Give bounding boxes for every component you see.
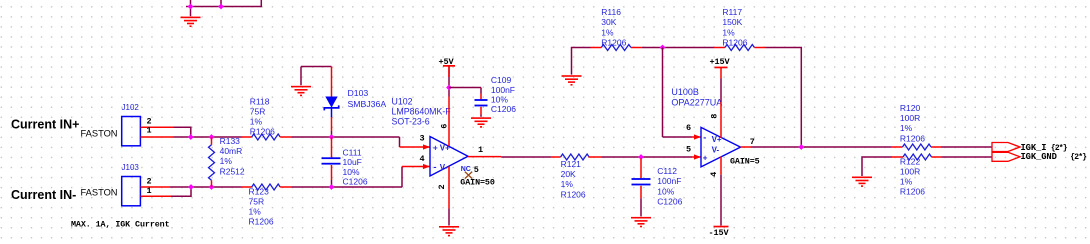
wire (output net)	[751, 146, 892, 148]
svg-text:SOT-23-6: SOT-23-6	[392, 117, 430, 127]
wire (top-left vertical 1)	[190, 0, 192, 7]
svg-text:1: 1	[147, 126, 152, 136]
wire (D103 to net IN+)	[331, 131, 333, 137]
junction (top-left B)	[218, 4, 224, 10]
lead (C111 top)	[331, 137, 333, 157]
svg-text:R1206: R1206	[561, 189, 586, 199]
wire (top-left vertical 3)	[260, 0, 262, 7]
svg-text:C1206: C1206	[343, 176, 368, 186]
lead (R117 left)	[714, 47, 725, 49]
wire (C109 top)	[480, 88, 482, 94]
svg-text:D103: D103	[348, 88, 369, 98]
svg-text:5: 5	[686, 144, 691, 154]
resistor R120	[903, 144, 932, 150]
svg-text:GAIN=50: GAIN=50	[460, 177, 495, 187]
label R118 75R 1% R1206	[250, 96, 275, 136]
svg-text:10%: 10%	[491, 94, 508, 104]
svg-text:J102: J102	[122, 103, 140, 112]
lead (R121 right)	[588, 156, 601, 158]
lead (R116 left)	[591, 47, 602, 49]
wire (J102 pin2 to node)	[174, 127, 191, 137]
junction (net IN+ 1)	[188, 134, 194, 140]
svg-text:10%: 10%	[657, 186, 674, 196]
arrow (pin 5)	[694, 154, 701, 159]
svg-text:-15V: -15V	[709, 228, 730, 238]
connector J103	[122, 177, 141, 206]
svg-text:R1206: R1206	[900, 133, 925, 143]
svg-text:+: +	[703, 154, 708, 163]
svg-text:40mR: 40mR	[220, 146, 243, 156]
pin 3 of U102	[400, 146, 431, 148]
wire (IGK_GND net)	[942, 156, 993, 158]
label R116 30K 1% R1206	[601, 7, 626, 47]
svg-text:R120: R120	[900, 103, 921, 113]
svg-text:U102: U102	[392, 97, 413, 107]
svg-text:V-: V-	[440, 163, 448, 172]
svg-text:C111: C111	[343, 148, 362, 158]
svg-text:1%: 1%	[250, 117, 263, 127]
svg-text:R118: R118	[250, 96, 270, 106]
label R133 40mR 1% R2512	[220, 136, 245, 176]
svg-text:-: -	[434, 162, 437, 172]
pin 7 of U100B	[741, 146, 752, 148]
svg-text:C1206: C1206	[491, 104, 516, 114]
svg-text:1%: 1%	[220, 156, 233, 166]
svg-text:30K: 30K	[601, 17, 616, 27]
label R120 100R 1% R1206	[900, 103, 925, 143]
ground (IGK_GND)	[852, 177, 872, 187]
wire (R116 to ground)	[572, 48, 591, 75]
svg-text:GAIN=5: GAIN=5	[730, 157, 760, 167]
svg-text:MAX. 1A, IGK Current: MAX. 1A, IGK Current	[71, 219, 170, 229]
svg-text:U100B: U100B	[671, 87, 699, 97]
svg-text:+5V: +5V	[439, 57, 455, 67]
svg-text:4: 4	[709, 172, 719, 177]
label C109 100nF 10% C1206	[491, 75, 516, 114]
junction (C112 node)	[638, 154, 644, 160]
lead (R123 left)	[242, 186, 252, 188]
svg-text:2: 2	[437, 184, 447, 189]
svg-text:100R: 100R	[900, 113, 920, 123]
lead (R118 right)	[280, 136, 291, 138]
svg-text:1%: 1%	[900, 177, 913, 187]
pin 4 of U102	[402, 166, 430, 168]
no-connect cross (U102 pin 5)	[465, 172, 472, 179]
svg-text:C109: C109	[491, 75, 512, 85]
svg-text:100nF: 100nF	[657, 176, 681, 186]
svg-text:J103: J103	[122, 163, 140, 172]
pin 5 of U100B	[692, 156, 701, 158]
svg-text:R117: R117	[722, 7, 742, 17]
capacitor C109	[475, 99, 488, 106]
svg-text:20K: 20K	[561, 169, 576, 179]
arrow (pin 3)	[423, 144, 430, 149]
capacitor C111	[322, 157, 341, 164]
label C111 10uF 10% C1206	[343, 148, 368, 187]
svg-text:C1206: C1206	[657, 196, 682, 206]
svg-text:R2512: R2512	[220, 166, 245, 176]
svg-text:FASTON: FASTON	[81, 188, 118, 198]
capacitor C112	[632, 178, 651, 185]
label R121 20K 1% R1206	[561, 159, 586, 199]
pin 1 of J103	[141, 195, 172, 197]
wire (C111 to net IN-)	[331, 180, 333, 187]
pin 1 of U102	[468, 156, 501, 158]
pin 4 of U100B	[720, 157, 722, 175]
svg-text:R123: R123	[249, 186, 270, 196]
svg-text:75R: 75R	[249, 196, 265, 206]
junction (output node)	[798, 144, 804, 150]
svg-text:75R: 75R	[250, 106, 266, 116]
junction (net IN+ 2)	[209, 134, 215, 140]
svg-text:-: -	[703, 133, 706, 143]
svg-text:5: 5	[474, 165, 479, 175]
wire (+15V to pin 8)	[720, 79, 722, 103]
svg-text:R1206: R1206	[601, 37, 626, 47]
wire (feedback down to pin 6)	[662, 48, 664, 138]
svg-text:R1206: R1206	[900, 187, 925, 197]
svg-text:R122: R122	[900, 156, 921, 166]
svg-text:OPA2277UA: OPA2277UA	[671, 97, 722, 107]
junction (net IN+ at C111)	[329, 134, 335, 140]
svg-text:6: 6	[686, 123, 691, 133]
port IGK_I	[992, 143, 1020, 152]
svg-text:10%: 10%	[343, 167, 360, 177]
label R117 150K 1% R1206	[722, 7, 747, 47]
wire (R117 to output)	[766, 48, 802, 148]
wire (top-left vertical 2)	[220, 0, 222, 7]
wire (ground stem D103)	[300, 67, 302, 86]
power -15V	[714, 226, 729, 228]
ground (C112)	[631, 217, 651, 227]
svg-text:R133: R133	[220, 136, 241, 146]
svg-text:Current IN-: Current IN-	[11, 188, 76, 202]
lead (C111 bottom)	[331, 165, 333, 180]
svg-text:R1206: R1206	[250, 127, 275, 137]
lead (R118 left)	[242, 136, 252, 138]
svg-text:1%: 1%	[900, 123, 913, 133]
svg-text:+: +	[433, 143, 438, 152]
wire (C109 to ground)	[480, 115, 482, 117]
svg-text:1: 1	[147, 186, 152, 196]
svg-text:V-: V-	[712, 146, 720, 155]
lead (C109 top)	[480, 94, 482, 100]
svg-text:4: 4	[420, 154, 425, 164]
junction (feedback node)	[660, 45, 666, 51]
svg-text:SMBJ36A: SMBJ36A	[348, 99, 387, 109]
lead (R121 left)	[551, 156, 561, 158]
op-amp U102 triangle	[430, 137, 468, 177]
svg-text:1%: 1%	[722, 27, 735, 37]
wire (ground stem top-left)	[190, 7, 192, 17]
svg-text:1%: 1%	[601, 27, 614, 37]
arrow (pin 6)	[694, 134, 701, 139]
lead (R120 right)	[931, 146, 941, 148]
lead (C109 bottom)	[480, 107, 482, 115]
lead (C112 top)	[640, 159, 642, 179]
svg-text:6: 6	[440, 124, 450, 129]
label C112 100nF 10% C1206	[657, 166, 682, 206]
svg-text:1%: 1%	[249, 207, 262, 217]
svg-text:3: 3	[420, 134, 425, 144]
wire (U102 output)	[501, 156, 551, 158]
svg-text:Current IN+: Current IN+	[11, 117, 79, 131]
ground (C109)	[471, 117, 491, 127]
svg-text:R1206: R1206	[249, 217, 274, 227]
svg-text:1%: 1%	[561, 179, 574, 189]
wire (U102 pin2 to ground)	[448, 209, 450, 226]
lead (R133 bottom)	[211, 180, 213, 187]
pin 2 of J103	[141, 186, 171, 188]
lead (D103 cathode)	[331, 67, 333, 97]
resistor R118	[252, 134, 281, 140]
wire (net IN- up to pin 4)	[401, 167, 403, 188]
wire (D103 to ground)	[301, 66, 332, 68]
resistor R116	[601, 45, 631, 51]
pin 2 of U102	[448, 167, 450, 209]
lead (R116 right)	[631, 47, 642, 49]
wire (feedback node)	[642, 47, 714, 49]
wire (+5V to U102)	[448, 66, 450, 96]
pin 6 of U102	[448, 97, 450, 147]
wire (net IN- left)	[170, 186, 242, 188]
svg-text:R116: R116	[601, 7, 621, 17]
wire (IGK_GND to ground)	[862, 157, 892, 176]
svg-text:8: 8	[709, 114, 719, 119]
wire (IGK_I net)	[941, 146, 992, 148]
resistor R133	[209, 145, 215, 181]
lead (C112 bottom)	[640, 186, 642, 199]
pin 1 of J102	[141, 136, 174, 138]
wire (net IN+ down to pin 3)	[399, 137, 401, 147]
junction (net IN- 2)	[209, 184, 215, 190]
svg-text:FASTON: FASTON	[81, 128, 118, 138]
connector J102	[122, 117, 141, 146]
svg-text:100nF: 100nF	[491, 85, 515, 95]
svg-text:1: 1	[478, 145, 483, 155]
wire (net IN+ right)	[292, 136, 400, 138]
ground (R116)	[562, 75, 582, 85]
label R123 75R 1% R1206	[249, 186, 274, 226]
lead (R133 top)	[211, 137, 213, 145]
junction (net IN- at C111)	[329, 184, 335, 190]
svg-text:{2*}: {2*}	[1070, 153, 1087, 162]
wire (C112 to ground)	[640, 198, 642, 216]
svg-text:100R: 100R	[900, 166, 920, 176]
wire (pin 4 to -15V)	[720, 175, 722, 226]
pin 2 of J102	[141, 126, 174, 128]
svg-text:IGK_GND: IGK_GND	[1021, 152, 1057, 162]
lead (R122 left)	[892, 156, 903, 158]
wire (+5V to C109)	[449, 87, 481, 89]
svg-text:150K: 150K	[722, 17, 742, 27]
power +5V	[443, 65, 455, 77]
svg-text:+15V: +15V	[710, 57, 731, 67]
svg-text:10uF: 10uF	[343, 157, 362, 167]
pin 6 of U100B	[692, 136, 701, 138]
resistor R123	[252, 184, 281, 190]
ground (D103)	[291, 86, 311, 96]
diode D103	[324, 97, 338, 118]
wire (top-left horizontal)	[186, 6, 261, 8]
resistor R117	[725, 45, 755, 51]
lead (R123 right)	[280, 186, 291, 188]
svg-text:R1206: R1206	[722, 37, 747, 47]
svg-text:LMP8640MK-F: LMP8640MK-F	[392, 107, 452, 117]
lead (D103 anode)	[331, 117, 333, 131]
resistor R121	[561, 154, 590, 160]
ground (top-left)	[181, 17, 201, 27]
svg-text:R121: R121	[561, 159, 582, 169]
resistor R122	[903, 154, 932, 160]
op-amp U100B triangle	[701, 127, 741, 166]
lead (R117 right)	[754, 47, 765, 49]
power +15V	[715, 67, 728, 79]
svg-text:C112: C112	[657, 166, 677, 176]
arrow (pin 4)	[423, 164, 430, 169]
label R122 100R 1% R1206	[900, 156, 925, 196]
junction (top-left A)	[188, 4, 194, 10]
junction (+5V node)	[446, 85, 452, 91]
wire (to pin 6)	[663, 136, 693, 138]
wire (J103 pin1 to node)	[171, 187, 191, 196]
lead (R122 right)	[932, 156, 942, 158]
svg-text:7: 7	[750, 137, 755, 147]
junction (net IN- 1)	[188, 184, 194, 190]
ground (U102 pin 2)	[439, 226, 459, 236]
lead (R120 left)	[892, 146, 903, 148]
wire (net IN- right)	[292, 186, 403, 188]
wire (net IN+ left)	[174, 136, 242, 138]
port IGK_GND	[992, 152, 1020, 161]
wire (R121 to U100B pin 5)	[602, 156, 693, 158]
pin 8 of U100B	[720, 102, 722, 138]
